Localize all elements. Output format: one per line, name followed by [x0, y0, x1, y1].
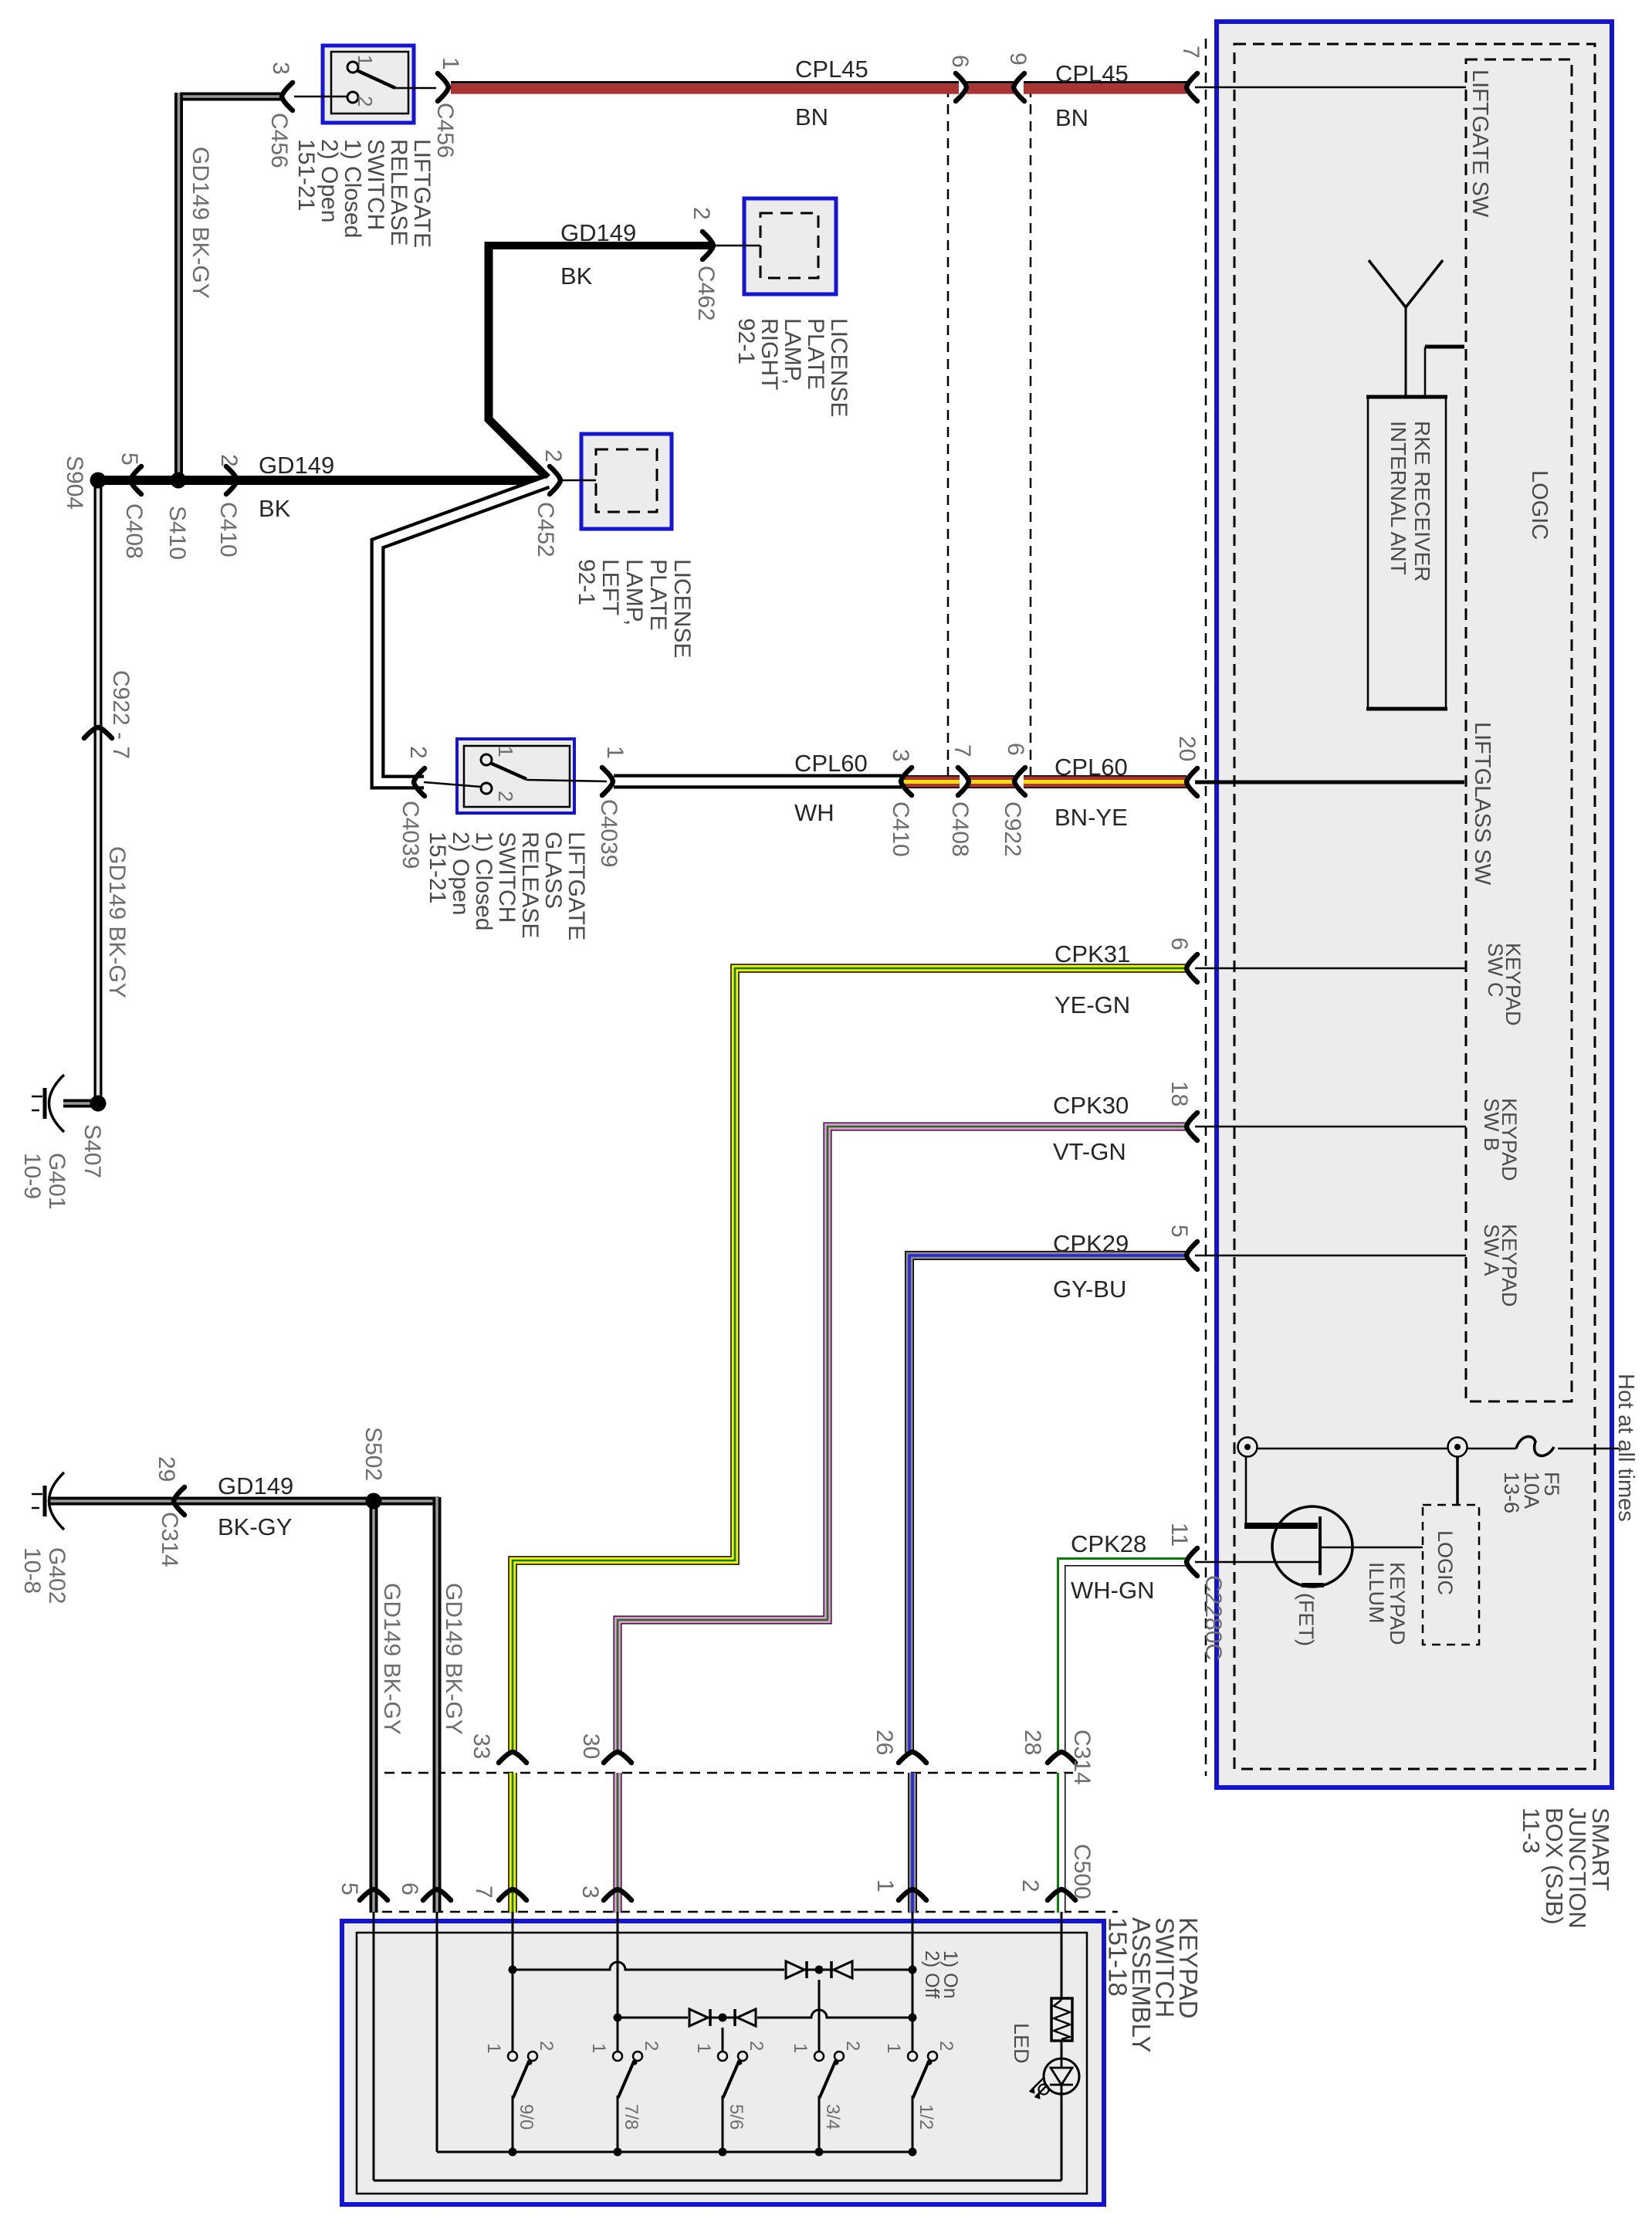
svg-text:5/6: 5/6: [726, 2104, 746, 2130]
svg-text:S410: S410: [164, 506, 190, 560]
svg-text:151-21: 151-21: [293, 139, 319, 211]
svg-text:C314: C314: [1069, 1730, 1095, 1785]
svg-text:2: 2: [641, 2041, 662, 2051]
svg-text:C410: C410: [888, 801, 913, 857]
svg-text:2: 2: [746, 2041, 767, 2051]
svg-text:S904: S904: [62, 456, 87, 510]
svg-text:GD149: GD149: [259, 452, 334, 479]
svg-text:G401: G401: [44, 1153, 69, 1209]
svg-text:28: 28: [1020, 1730, 1045, 1755]
svg-text:CPL45: CPL45: [1055, 60, 1129, 87]
svg-text:VT-GN: VT-GN: [1053, 1138, 1126, 1165]
svg-text:6: 6: [397, 1882, 422, 1896]
svg-text:2: 2: [689, 207, 714, 220]
svg-text:2) Off: 2) Off: [921, 1950, 943, 1998]
svg-text:LOGIC: LOGIC: [1434, 1530, 1457, 1595]
svg-text:9: 9: [1005, 53, 1031, 66]
svg-text:5: 5: [1166, 1225, 1192, 1238]
svg-text:GLASS: GLASS: [540, 832, 566, 909]
svg-text:C456: C456: [266, 113, 292, 168]
svg-text:7: 7: [471, 1886, 496, 1899]
svg-text:CPL45: CPL45: [795, 56, 868, 83]
svg-text:C922 - 7: C922 - 7: [108, 670, 134, 759]
svg-text:CPK31: CPK31: [1055, 940, 1130, 967]
svg-text:KEYPAD: KEYPAD: [1386, 1562, 1409, 1645]
svg-text:CPK30: CPK30: [1053, 1092, 1129, 1119]
svg-text:1: 1: [483, 2043, 504, 2053]
svg-text:BN: BN: [795, 103, 828, 130]
svg-text:C4039: C4039: [398, 801, 423, 869]
svg-text:1: 1: [872, 1879, 898, 1892]
svg-text:7: 7: [1178, 46, 1203, 59]
svg-text:6: 6: [1166, 937, 1192, 950]
svg-text:BN: BN: [1055, 104, 1088, 131]
svg-text:2: 2: [494, 791, 517, 801]
svg-text:LIFTGATE SW: LIFTGATE SW: [1468, 69, 1492, 218]
svg-text:LICENSE: LICENSE: [669, 559, 695, 658]
svg-text:LED: LED: [1010, 2023, 1033, 2064]
svg-text:30: 30: [578, 1733, 604, 1759]
svg-text:10-8: 10-8: [19, 1547, 45, 1594]
svg-text:1: 1: [354, 55, 377, 66]
svg-text:PLATE: PLATE: [645, 559, 671, 631]
svg-text:C462: C462: [693, 266, 719, 321]
svg-text:C408: C408: [121, 503, 147, 559]
svg-text:2: 2: [1017, 1879, 1043, 1892]
svg-text:LIFTGLASS SW: LIFTGLASS SW: [1470, 722, 1495, 886]
svg-text:1: 1: [883, 2043, 904, 2053]
svg-text:1: 1: [494, 746, 517, 757]
svg-text:S407: S407: [80, 1124, 105, 1178]
svg-text:SW A: SW A: [1480, 1224, 1503, 1276]
svg-text:26: 26: [872, 1730, 897, 1755]
svg-text:6: 6: [947, 55, 973, 68]
svg-text:LAMP,: LAMP,: [621, 559, 647, 625]
svg-text:CPL60: CPL60: [1055, 754, 1128, 781]
svg-text:SWITCH: SWITCH: [363, 139, 388, 230]
svg-text:1: 1: [693, 2043, 714, 2053]
svg-text:GD149 BK-GY: GD149 BK-GY: [188, 147, 213, 299]
svg-text:GD149 BK-GY: GD149 BK-GY: [379, 1583, 405, 1735]
svg-text:10-9: 10-9: [19, 1153, 45, 1199]
svg-text:PLATE: PLATE: [803, 318, 828, 390]
svg-text:3: 3: [888, 749, 913, 762]
svg-text:11-3: 11-3: [1518, 1808, 1545, 1854]
svg-text:G402: G402: [44, 1547, 69, 1604]
svg-text:1/2: 1/2: [916, 2104, 936, 2130]
svg-text:7/8: 7/8: [621, 2104, 642, 2130]
svg-text:5: 5: [117, 452, 142, 466]
svg-text:LOGIC: LOGIC: [1527, 470, 1552, 540]
svg-text:RELEASE: RELEASE: [386, 139, 411, 246]
svg-text:BK-GY: BK-GY: [218, 1513, 292, 1540]
svg-text:WH: WH: [794, 799, 834, 826]
svg-text:Hot at all times: Hot at all times: [1613, 1374, 1638, 1522]
svg-text:20: 20: [1174, 736, 1200, 761]
svg-text:2) Open: 2) Open: [317, 139, 342, 222]
svg-text:C922: C922: [1000, 801, 1025, 857]
svg-text:92-1: 92-1: [733, 318, 759, 364]
svg-text:2: 2: [354, 96, 377, 107]
svg-text:2: 2: [936, 2041, 956, 2051]
svg-text:6: 6: [1003, 743, 1028, 756]
svg-text:C452: C452: [533, 502, 558, 557]
svg-text:INTERNAL ANT: INTERNAL ANT: [1386, 421, 1410, 575]
svg-text:CPK29: CPK29: [1053, 1230, 1129, 1257]
svg-text:C314: C314: [157, 1512, 182, 1567]
svg-text:3/4: 3/4: [822, 2104, 843, 2130]
svg-text:151-18: 151-18: [1104, 1917, 1132, 1997]
svg-text:13-6: 13-6: [1500, 1472, 1523, 1513]
svg-text:CPK28: CPK28: [1071, 1530, 1146, 1557]
svg-text:2: 2: [405, 746, 431, 759]
svg-text:GD149 BK-GY: GD149 BK-GY: [441, 1583, 466, 1735]
svg-text:33: 33: [469, 1733, 494, 1759]
svg-text:WH-GN: WH-GN: [1071, 1577, 1154, 1604]
svg-text:LAMP,: LAMP,: [780, 318, 805, 385]
svg-text:(FET): (FET): [1295, 1593, 1318, 1646]
svg-text:3: 3: [268, 62, 293, 75]
svg-text:SW C: SW C: [1484, 943, 1507, 998]
svg-text:2: 2: [216, 454, 242, 467]
svg-text:BK: BK: [259, 495, 291, 522]
svg-text:LEFT: LEFT: [597, 559, 623, 615]
svg-text:C4039: C4039: [596, 799, 621, 867]
svg-text:18: 18: [1166, 1081, 1192, 1106]
svg-text:2: 2: [540, 449, 566, 463]
svg-text:LIFTGATE: LIFTGATE: [564, 832, 589, 940]
svg-text:1: 1: [602, 746, 628, 759]
svg-text:2) Open: 2) Open: [448, 832, 473, 915]
svg-text:2: 2: [536, 2041, 557, 2051]
svg-text:SWITCH: SWITCH: [494, 832, 520, 923]
svg-text:RKE RECEIVER: RKE RECEIVER: [1410, 421, 1434, 582]
svg-text:151-21: 151-21: [425, 832, 450, 903]
svg-text:C408: C408: [947, 801, 973, 857]
svg-text:92-1: 92-1: [574, 559, 599, 605]
svg-text:C2280C: C2280C: [1200, 1575, 1226, 1660]
svg-text:ILLUM: ILLUM: [1365, 1562, 1388, 1624]
svg-text:CPL60: CPL60: [794, 750, 868, 777]
svg-text:SW B: SW B: [1480, 1098, 1503, 1151]
svg-text:1) Closed: 1) Closed: [340, 139, 365, 238]
svg-text:C410: C410: [215, 502, 241, 557]
svg-text:BN-YE: BN-YE: [1055, 804, 1128, 831]
svg-text:1: 1: [588, 2043, 609, 2053]
svg-text:2: 2: [842, 2041, 863, 2051]
svg-text:GY-BU: GY-BU: [1053, 1276, 1126, 1303]
svg-text:GD149 BK-GY: GD149 BK-GY: [104, 846, 130, 998]
svg-text:9/0: 9/0: [516, 2104, 537, 2130]
svg-text:LIFTGATE: LIFTGATE: [409, 139, 435, 248]
svg-text:LICENSE: LICENSE: [826, 318, 851, 417]
svg-text:YE-GN: YE-GN: [1055, 991, 1130, 1018]
svg-text:1) Closed: 1) Closed: [471, 832, 496, 930]
svg-text:1: 1: [438, 57, 463, 70]
svg-text:BK: BK: [560, 263, 593, 290]
svg-text:7: 7: [950, 744, 975, 757]
svg-text:11: 11: [1166, 1523, 1192, 1547]
svg-text:S502: S502: [361, 1427, 386, 1481]
svg-text:RIGHT: RIGHT: [757, 318, 782, 390]
svg-text:5: 5: [337, 1882, 362, 1896]
svg-text:3: 3: [577, 1886, 603, 1899]
svg-text:RELEASE: RELEASE: [517, 832, 543, 938]
svg-text:GD149: GD149: [218, 1472, 293, 1499]
svg-text:29: 29: [154, 1456, 179, 1482]
svg-text:GD149: GD149: [560, 219, 636, 246]
svg-text:1: 1: [790, 2043, 811, 2053]
svg-text:C456: C456: [432, 103, 458, 158]
svg-text:C500: C500: [1069, 1844, 1095, 1899]
